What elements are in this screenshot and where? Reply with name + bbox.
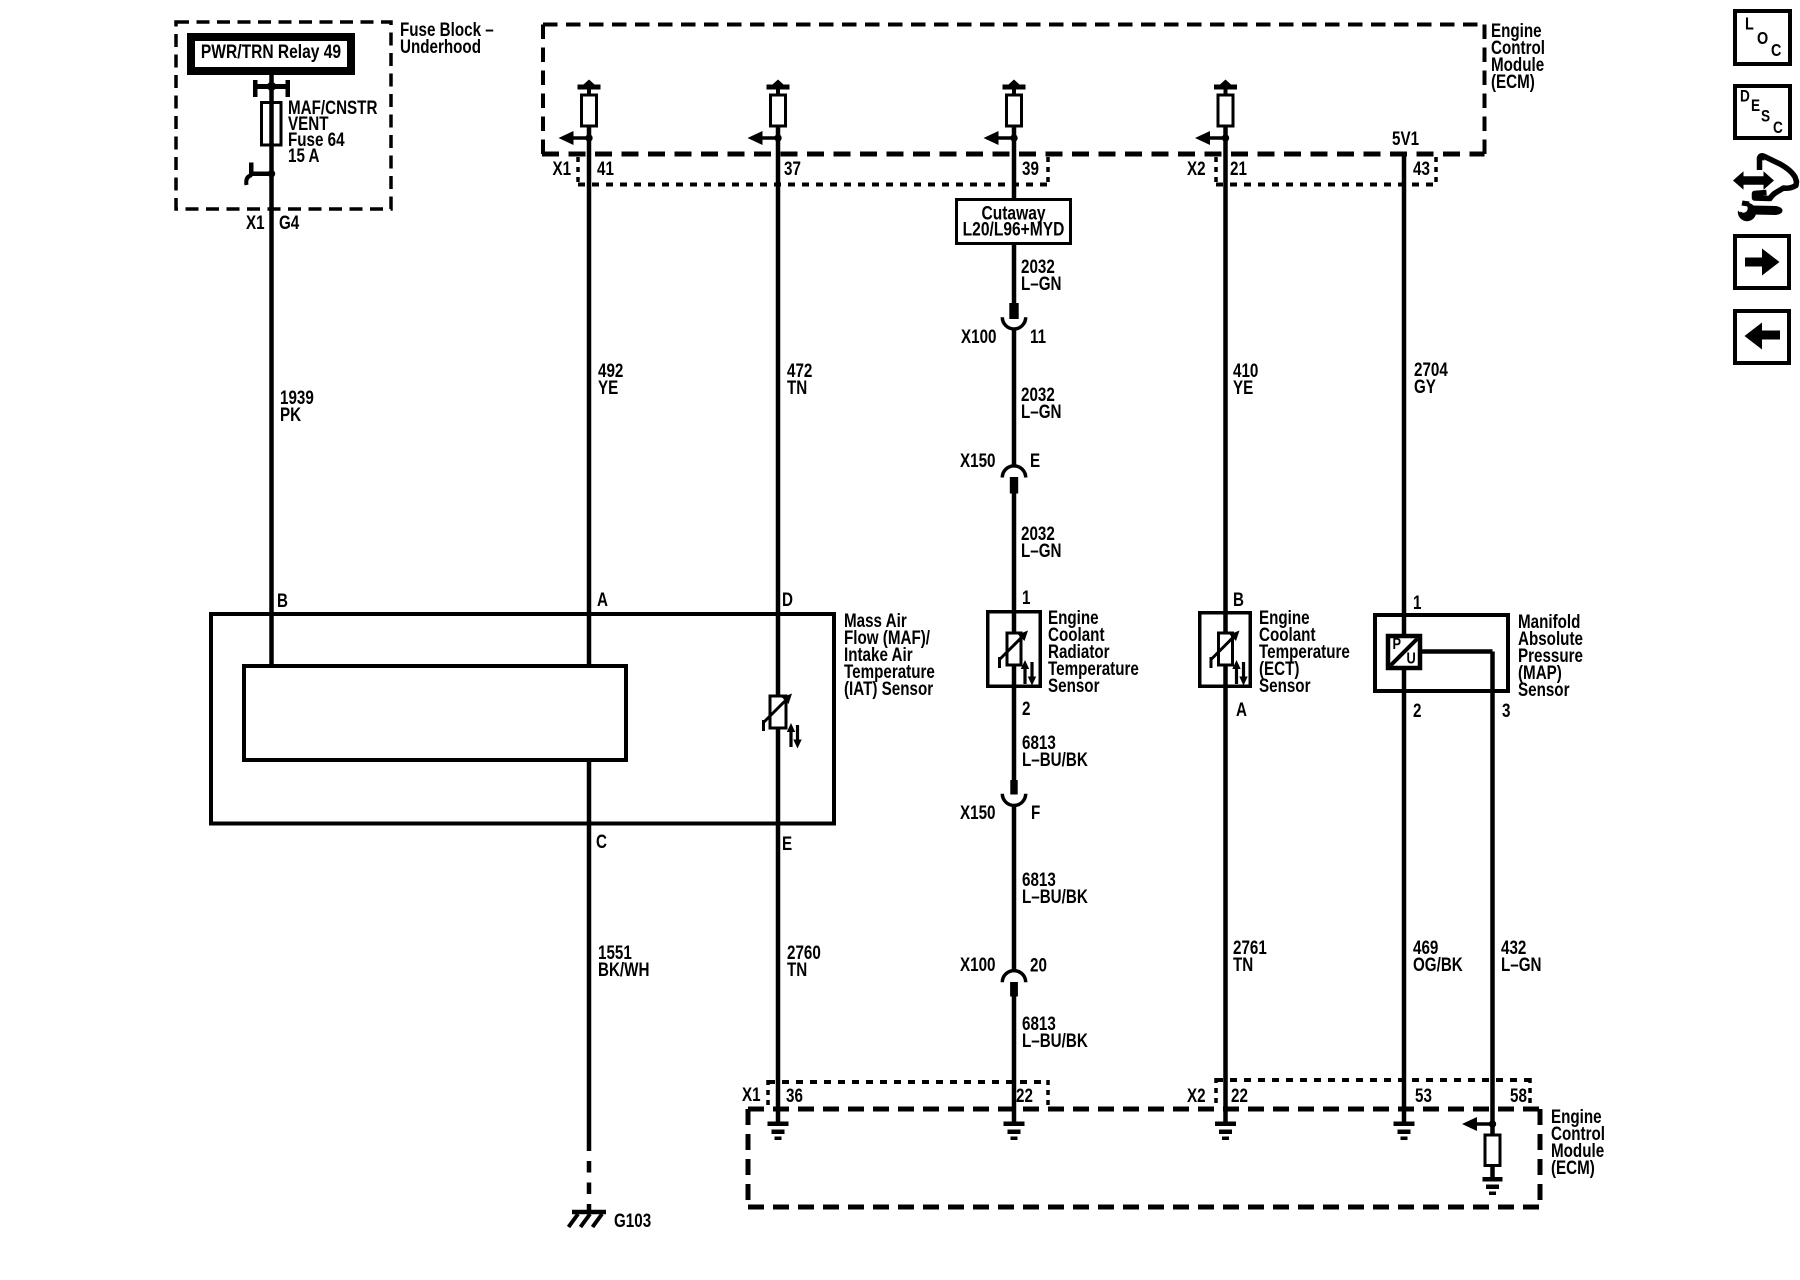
wire dashed to G103	[587, 1161, 592, 1210]
MAP pin 1 label	[1413, 591, 1422, 613]
label G4	[279, 211, 300, 233]
MAF pin E label	[782, 832, 792, 854]
svg-text:53: 53	[1415, 1084, 1432, 1106]
ECM pull-up resistor pin 21	[1195, 80, 1237, 155]
label 1939 PK	[280, 386, 314, 425]
ground inside ECM (pin 58)	[1483, 1177, 1503, 1195]
wire pin39 to Cutaway box	[1012, 154, 1017, 198]
ECM pull-up resistor pin 37	[748, 80, 790, 155]
svg-text:G4: G4	[279, 211, 300, 233]
label pin 36	[786, 1084, 803, 1106]
wire 492 YE pin41 to MAF pin A	[587, 154, 592, 612]
svg-text:Fuse Block –Underhood: Fuse Block –Underhood	[400, 18, 494, 57]
radiator sensor wire inside (top)	[1012, 610, 1017, 634]
MAF wire D inside (top)	[776, 612, 781, 697]
svg-text:B: B	[1233, 588, 1244, 610]
label X1 (top strip)	[553, 157, 572, 179]
svg-text:2760TN: 2760TN	[787, 941, 821, 980]
fuse clip bottom	[246, 163, 275, 186]
ground at ECM X2-22	[1215, 1122, 1236, 1141]
svg-text:41: 41	[597, 157, 614, 179]
label 2760 TN	[787, 941, 821, 980]
svg-text:6813L–BU/BK: 6813L–BU/BK	[1022, 1012, 1088, 1051]
wire 410 YE pin21 to ECT pin B	[1223, 154, 1228, 611]
ground G103	[569, 1212, 607, 1227]
label Engine Control Module (ECM) top	[1491, 19, 1545, 92]
wire 2032 L-GN X100-11 to X150-E	[1012, 329, 1017, 466]
label 2032 L-GN (c)	[1021, 522, 1062, 561]
label 2032 L-GN (b)	[1021, 383, 1062, 422]
MAF wire C inside	[587, 760, 592, 825]
label 472 TN	[787, 359, 812, 398]
wire 469 OG/BK MAP-2 to ECM 53	[1402, 693, 1407, 1122]
MAP P/U transducer symbol	[1388, 636, 1420, 668]
svg-text:Mass AirFlow (MAF)/Intake AirT: Mass AirFlow (MAF)/Intake AirTemperature…	[844, 609, 935, 699]
IAT thermistor	[764, 694, 802, 749]
wire 2032 L-GN X150-E to radiator sensor	[1012, 492, 1017, 610]
MAF wire B inside	[269, 612, 274, 666]
svg-text:A: A	[597, 588, 608, 610]
connector X100 pin 11 (inline)	[1002, 303, 1025, 329]
label pin F	[1031, 801, 1040, 823]
label pin 21	[1230, 157, 1247, 179]
svg-text:X2: X2	[1187, 1084, 1206, 1106]
svg-text:1: 1	[1022, 586, 1031, 608]
svg-text:492YE: 492YE	[598, 359, 623, 398]
engine coolant radiator temperature sensor box	[988, 612, 1041, 687]
svg-text:X1: X1	[246, 211, 265, 233]
label pin 37	[784, 157, 801, 179]
svg-text:410YE: 410YE	[1233, 359, 1258, 398]
label 2704 GY	[1414, 358, 1448, 397]
label X100 (a)	[961, 325, 996, 347]
MAP pin 2 label	[1413, 699, 1421, 721]
radiator sensor wire inside (bottom)	[1012, 665, 1017, 688]
ECM (top) heavy dashed bottom edge	[542, 152, 1485, 157]
MAF pin A label	[597, 588, 608, 610]
wire 6813 L-BU/BK X150-F to X100-20	[1012, 805, 1017, 972]
svg-text:B: B	[277, 589, 288, 611]
ECT wire inside (top)	[1223, 611, 1228, 634]
label pin 20	[1030, 954, 1047, 976]
label pin E	[1030, 449, 1040, 471]
icon previous page box	[1735, 311, 1789, 363]
MAP wire P/U to pin 3	[1420, 652, 1493, 694]
svg-text:37: 37	[784, 157, 801, 179]
label X100 (b)	[960, 953, 995, 975]
label pin 41	[597, 157, 614, 179]
svg-text:E: E	[1030, 449, 1040, 471]
label 410 YE	[1233, 359, 1258, 398]
radiator sensor pin 2 label	[1022, 697, 1030, 719]
svg-text:S: S	[1761, 107, 1770, 126]
label pin 58	[1510, 1084, 1527, 1106]
svg-text:C: C	[1773, 119, 1783, 138]
svg-text:43: 43	[1413, 157, 1430, 179]
wire relay to fuse F64	[269, 75, 274, 102]
svg-text:2761TN: 2761TN	[1233, 936, 1267, 975]
ECT pin B label	[1233, 588, 1244, 610]
svg-text:36: 36	[786, 1084, 803, 1106]
svg-text:472TN: 472TN	[787, 359, 812, 398]
MAF pin C label	[596, 830, 607, 852]
mass air flow / IAT sensor box	[211, 614, 834, 824]
wire 6813 L-BU/BK X100-20 to ECM pin 22	[1012, 996, 1017, 1122]
label Fuse Block - Underhood	[400, 18, 494, 57]
ECM X2 connector strip (top)	[1216, 157, 1437, 185]
wire 432 L-GN MAP-3 to ECM 58	[1490, 693, 1495, 1124]
svg-text:EngineCoolantTemperature(ECT)S: EngineCoolantTemperature(ECT)Sensor	[1259, 606, 1350, 696]
svg-text:1551BK/WH: 1551BK/WH	[598, 941, 649, 980]
label 6813 L-BU/BK (c)	[1022, 1012, 1088, 1051]
label pin 43	[1413, 157, 1430, 179]
ECT pin A label	[1236, 698, 1247, 720]
connector X100 pin 20 (inline)	[1002, 971, 1025, 997]
svg-text:58: 58	[1510, 1084, 1527, 1106]
fuse clip top	[253, 80, 290, 97]
svg-text:6813L–BU/BK: 6813L–BU/BK	[1022, 731, 1088, 770]
ground at ECM X1-22	[1004, 1122, 1025, 1141]
label X150 (b)	[960, 801, 995, 823]
svg-text:PWR/TRN Relay 49: PWR/TRN Relay 49	[201, 41, 341, 63]
ECT wire inside (bottom)	[1223, 665, 1228, 688]
label X1 (fuse block)	[246, 211, 265, 233]
label 5V1 net	[1392, 127, 1419, 149]
svg-text:21: 21	[1230, 157, 1247, 179]
icon DESC box	[1735, 86, 1790, 138]
label pin 39	[1022, 157, 1039, 179]
label MAF/CNSTR VENT Fuse 64 15 A	[288, 96, 378, 166]
svg-text:EngineCoolantRadiatorTemperatu: EngineCoolantRadiatorTemperatureSensor	[1048, 606, 1139, 696]
label G103	[614, 1209, 651, 1231]
engine coolant temperature (ECT) sensor box	[1200, 613, 1251, 687]
svg-text:39: 39	[1022, 157, 1039, 179]
wire 2760 TN MAF-E to ECM X1-36	[776, 823, 781, 1122]
svg-text:2: 2	[1413, 699, 1421, 721]
svg-text:E: E	[1751, 97, 1760, 116]
wire G4 to MAF pin B	[269, 209, 274, 612]
svg-text:X1: X1	[742, 1083, 761, 1105]
label pin 22 (X1)	[1016, 1084, 1033, 1106]
ECT thermistor	[1211, 631, 1248, 686]
svg-text:2032L–GN: 2032L–GN	[1021, 255, 1062, 294]
svg-text:EngineControlModule(ECM): EngineControlModule(ECM)	[1491, 19, 1545, 92]
svg-text:3: 3	[1502, 699, 1510, 721]
ECM (bottom) dashed box	[748, 1109, 1540, 1207]
ground at ECM X2-53	[1394, 1122, 1415, 1141]
label 6813 L-BU/BK (a)	[1022, 731, 1088, 770]
ECM internal node at pin 58	[1462, 1117, 1496, 1131]
svg-text:469OG/BK: 469OG/BK	[1413, 936, 1463, 975]
label X2 (top strip)	[1187, 157, 1206, 179]
MAP wire inside (top)	[1402, 613, 1407, 636]
svg-text:E: E	[782, 832, 792, 854]
MAF pin B label	[277, 589, 288, 611]
label Manifold Absolute Pressure (MAP) Sensor	[1518, 610, 1583, 700]
label X2 (bottom strip)	[1187, 1084, 1206, 1106]
ECM X1 connector strip (bottom)	[768, 1080, 1049, 1108]
MAF wire D-E inside (bottom)	[776, 728, 781, 825]
svg-text:X2: X2	[1187, 157, 1206, 179]
svg-text:6813L–BU/BK: 6813L–BU/BK	[1022, 868, 1088, 907]
svg-text:C: C	[1771, 40, 1782, 60]
wire 2704 GY pin43 to MAP pin 1	[1402, 154, 1407, 613]
svg-text:20: 20	[1030, 954, 1047, 976]
radiator sensor pin 1 label	[1022, 586, 1031, 608]
svg-text:MAF/CNSTRVENTFuse 6415 A: MAF/CNSTRVENTFuse 6415 A	[288, 96, 378, 166]
fuse F64 body	[262, 102, 282, 145]
label Engine Coolant Temperature (ECT) Sensor	[1259, 606, 1350, 696]
MAF wire A inside	[587, 612, 592, 666]
svg-text:5V1: 5V1	[1392, 127, 1419, 149]
label Engine Coolant Radiator Temperature Sensor	[1048, 606, 1139, 696]
svg-text:G103: G103	[614, 1209, 651, 1231]
radiator sensor thermistor	[1000, 631, 1037, 686]
label X1 (bottom strip)	[742, 1083, 761, 1105]
svg-text:X100: X100	[961, 325, 996, 347]
svg-text:22: 22	[1231, 1084, 1248, 1106]
label 2032 L-GN (a)	[1021, 255, 1062, 294]
label 492 YE	[598, 359, 623, 398]
svg-text:F: F	[1031, 801, 1040, 823]
label 6813 L-BU/BK (b)	[1022, 868, 1088, 907]
MAF inner element box	[244, 666, 626, 760]
svg-text:X100: X100	[960, 953, 995, 975]
icon next page box	[1735, 236, 1789, 288]
svg-text:CutawayL20/L96+MYD: CutawayL20/L96+MYD	[963, 202, 1065, 240]
svg-text:432L–GN: 432L–GN	[1501, 936, 1542, 975]
svg-text:2032L–GN: 2032L–GN	[1021, 383, 1062, 422]
icon LOC box	[1735, 11, 1790, 64]
ECM internal resistor (pin 58)	[1485, 1124, 1500, 1177]
ECM pull-up resistor pin 41	[559, 80, 601, 155]
MAP pin 3 label	[1502, 699, 1510, 721]
svg-text:P: P	[1393, 636, 1402, 654]
ECM X1 connector strip (top)	[578, 157, 1049, 185]
svg-text:X1: X1	[553, 157, 572, 179]
cutaway option box	[957, 200, 1071, 244]
label Mass Air Flow (MAF) / IAT Sensor	[844, 609, 935, 699]
svg-text:1: 1	[1413, 591, 1422, 613]
label pin 53	[1415, 1084, 1432, 1106]
MAP wire inside (below P/U)	[1402, 670, 1407, 693]
svg-text:C: C	[596, 830, 607, 852]
label pin 11	[1030, 325, 1046, 347]
label 469 OG/BK	[1413, 936, 1463, 975]
ECM X2 connector strip (bottom)	[1216, 1078, 1531, 1108]
label X150 (a)	[960, 449, 995, 471]
svg-text:X150: X150	[960, 801, 995, 823]
ECM pull-up resistor pin 39	[984, 80, 1026, 155]
wire fuse to X1 G4	[269, 145, 274, 209]
wire 2761 TN ECT to ECM X2-22	[1223, 688, 1228, 1122]
ground at ECM X1-36	[768, 1122, 789, 1141]
svg-text:X150: X150	[960, 449, 995, 471]
svg-text:22: 22	[1016, 1084, 1033, 1106]
svg-text:D: D	[1740, 87, 1750, 106]
manifold absolute pressure (MAP) sensor box	[1375, 615, 1508, 691]
svg-text:2704GY: 2704GY	[1414, 358, 1448, 397]
icon vehicle diagnostics	[1731, 153, 1797, 221]
connector X150 pin F (inline)	[1002, 780, 1025, 805]
ECM (top) dashed box edges	[543, 25, 1485, 155]
svg-text:11: 11	[1030, 325, 1046, 347]
svg-text:2032L–GN: 2032L–GN	[1021, 522, 1062, 561]
cutaway label	[963, 202, 1065, 240]
svg-text:D: D	[782, 588, 793, 610]
label 1551 BK/WH	[598, 941, 649, 980]
connector X150 pin E (inline)	[1002, 466, 1025, 494]
wire 2032 L-GN cutaway to X100-11	[1012, 243, 1017, 305]
MAF pin D label	[782, 588, 793, 610]
relay label	[201, 41, 341, 63]
svg-text:1939PK: 1939PK	[280, 386, 314, 425]
svg-text:A: A	[1236, 698, 1247, 720]
wire 1551 BK/WH MAF-C to G103	[587, 825, 592, 1151]
label Engine Control Module (ECM) bottom	[1551, 1105, 1605, 1178]
label 2761 TN	[1233, 936, 1267, 975]
label pin 22 (X2)	[1231, 1084, 1248, 1106]
fuse block - underhood dashed box	[176, 22, 391, 209]
svg-text:2: 2	[1022, 697, 1030, 719]
relay PWR/TRN Relay 49 box	[191, 37, 351, 71]
svg-text:O: O	[1757, 28, 1768, 48]
label 432 L-GN	[1501, 936, 1542, 975]
svg-text:ManifoldAbsolutePressure(MAP)S: ManifoldAbsolutePressure(MAP)Sensor	[1518, 610, 1583, 700]
svg-text:L: L	[1745, 14, 1754, 34]
svg-text:U: U	[1407, 650, 1416, 668]
wire 472 TN pin37 to MAF pin D	[776, 154, 781, 612]
svg-text:EngineControlModule(ECM): EngineControlModule(ECM)	[1551, 1105, 1605, 1178]
wire 6813 L-BU/BK sensor to X150-F	[1012, 688, 1017, 782]
